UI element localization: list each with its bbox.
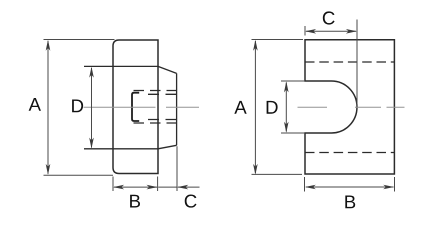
dimension B (left): dimension line with arrows	[113, 185, 157, 190]
hidden bore line (top)	[305, 61, 394, 63]
flange body outline (rounded left corners)	[113, 40, 158, 174]
dimension C (right): dimension line with arrows	[305, 29, 357, 34]
hidden bore line (bottom)	[305, 152, 394, 154]
dimension A (right): extension line bottom	[252, 173, 303, 175]
dimension A (right): dimension line with arrows	[253, 40, 258, 175]
dimension A (left): extension line bottom	[44, 174, 114, 176]
dimension D (right): dimension line with arrows	[284, 81, 289, 132]
hidden thread line (inner bottom)	[148, 119, 179, 121]
dimension D (left): dimension line with arrows	[89, 67, 94, 149]
centerline (left view)	[84, 106, 200, 108]
dimension C (right): extension line left	[304, 26, 306, 36]
dimension C (right): extension line right (down to arc apex)	[356, 20, 358, 107]
spigot top chamfer	[158, 66, 177, 73]
dimension D (right): extension line bottom	[281, 132, 305, 134]
dimension A (left): dimension line with arrows	[46, 40, 51, 175]
spigot bottom chamfer	[158, 145, 177, 149]
dimension B (left): extension line left	[112, 177, 114, 192]
dimension C (left): extension line	[176, 146, 178, 191]
dimension B (left): extension line right	[157, 177, 159, 192]
dimension C (left): dimension line with outside arrow	[158, 185, 199, 190]
spigot right edge	[176, 73, 178, 145]
label A (left)	[29, 98, 41, 111]
label D (right)	[267, 101, 278, 114]
centerline (right view)	[298, 106, 405, 108]
dimension B (right): extension line left	[304, 177, 306, 192]
label A (right)	[234, 101, 246, 114]
label B (left)	[130, 195, 140, 208]
label B (right)	[345, 196, 355, 209]
label C (right top)	[323, 11, 335, 24]
dimension A (right): extension line top	[252, 39, 304, 41]
dimension B (right): dimension line with arrows	[305, 185, 394, 190]
spigot step bottom line	[84, 148, 158, 150]
hidden thread line (inner top)	[148, 93, 179, 95]
hidden thread line (outer bottom)	[134, 122, 179, 124]
spigot step top line	[84, 65, 158, 67]
dimension D (right): extension line top	[281, 80, 305, 82]
label D (left)	[72, 100, 83, 113]
dimension B (right): extension line right	[394, 177, 396, 192]
hidden thread line (outer top)	[134, 90, 179, 92]
dimension A (left): extension line top	[44, 39, 115, 41]
thread relief bracket	[132, 93, 139, 121]
label C (left)	[185, 195, 197, 208]
tee body outline with side-port notch	[305, 40, 394, 174]
